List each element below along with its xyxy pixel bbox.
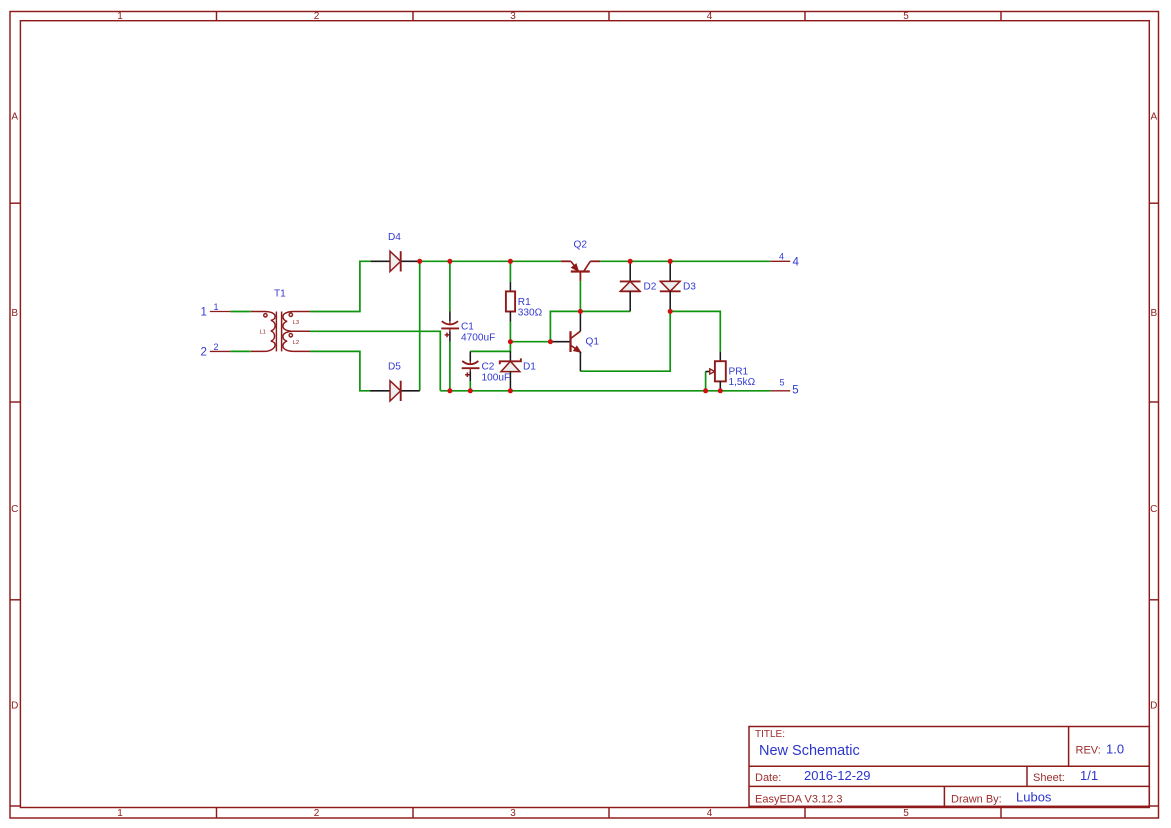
junction C1 top at top rail: [447, 259, 452, 264]
svg-text:C2: C2: [482, 362, 495, 373]
wire node to D1 top and C2 top: [470, 342, 510, 352]
svg-text:5: 5: [780, 378, 785, 388]
svg-text:D3: D3: [683, 282, 696, 293]
junction D1 bottom at bottom rail: [508, 388, 513, 393]
svg-text:B: B: [1150, 308, 1157, 319]
netflag 1 pin: [210, 311, 230, 313]
svg-text:New Schematic: New Schematic: [759, 743, 860, 759]
junction R1 top at top rail: [508, 259, 513, 264]
svg-text:2: 2: [214, 342, 219, 352]
svg-text:5: 5: [903, 808, 909, 819]
svg-text:TITLE:: TITLE:: [755, 729, 785, 740]
svg-text:L1: L1: [260, 329, 266, 335]
svg-text:D1: D1: [523, 362, 536, 373]
transformer T1: [251, 312, 310, 352]
junction D3 bottom node: [668, 309, 673, 314]
wire T1 L2 bottom to D5 anode: [310, 351, 370, 390]
wire R1 top branch: [509, 261, 511, 282]
svg-text:1: 1: [117, 808, 123, 819]
svg-text:REV:: REV:: [1076, 745, 1101, 757]
svg-text:D4: D4: [388, 232, 401, 243]
wire C1 top branch: [449, 261, 451, 311]
svg-text:PR1: PR1: [729, 367, 749, 378]
title block: [749, 727, 1149, 807]
svg-text:5: 5: [792, 385, 798, 397]
diode D4: [371, 251, 420, 271]
wire T1 pin2: [230, 350, 251, 352]
svg-text:3: 3: [510, 808, 516, 819]
svg-text:D: D: [11, 701, 18, 712]
wire top rail left (D4 to Q2 emitter): [420, 260, 561, 262]
wire C2 bottom branch: [469, 381, 471, 391]
svg-text:4: 4: [793, 257, 800, 269]
junction D4-D5 cathodes at top rail: [417, 259, 422, 264]
junction Q2 base / Q1 collector: [578, 309, 583, 314]
svg-text:C1: C1: [461, 322, 474, 333]
svg-text:L3: L3: [293, 320, 299, 326]
transistor Q1: [550, 311, 580, 371]
netflag 4 pin: [770, 260, 790, 262]
svg-text:R1: R1: [518, 297, 531, 308]
svg-text:D: D: [1150, 701, 1157, 712]
wire R1 bottom to base node: [509, 322, 511, 342]
zener diode D3: [660, 261, 681, 311]
svg-text:D5: D5: [388, 362, 401, 373]
wire center tap to bottom rail: [310, 331, 440, 391]
svg-text:Date:: Date:: [755, 772, 781, 784]
transistor Q2: [561, 261, 600, 281]
svg-text:2: 2: [314, 808, 320, 819]
svg-text:2016-12-29: 2016-12-29: [804, 768, 871, 783]
svg-text:4: 4: [707, 808, 713, 819]
svg-text:330Ω: 330Ω: [518, 308, 543, 319]
wire base node to Q1 base junction: [510, 341, 550, 343]
svg-text:1.0: 1.0: [1106, 742, 1124, 757]
wire Q1 base junction up to mid rail: [550, 311, 630, 341]
svg-text:2: 2: [314, 11, 320, 22]
svg-text:1: 1: [201, 307, 207, 319]
capacitor C1: [441, 312, 459, 342]
svg-text:B: B: [11, 308, 18, 319]
svg-text:2: 2: [201, 347, 207, 359]
capacitor C2: [462, 351, 480, 381]
wire D4 cathode down to D5 cathode: [419, 261, 421, 391]
wire bottom rail: [440, 390, 770, 392]
svg-text:C: C: [11, 504, 18, 515]
svg-text:4700uF: 4700uF: [461, 333, 495, 344]
zener diode D1: [500, 351, 521, 390]
junction C1 bottom at bottom rail: [447, 388, 452, 393]
junction D3 top at top rail: [668, 259, 673, 264]
svg-text:4: 4: [779, 252, 784, 262]
zener diode D2: [620, 261, 641, 311]
svg-text:Lubos: Lubos: [1016, 790, 1052, 805]
svg-text:D2: D2: [644, 282, 657, 293]
junction C2 bottom at bottom rail: [468, 388, 473, 393]
netflag 2 pin: [210, 350, 230, 352]
potentiometer PR1: [706, 352, 726, 391]
wire mid rail D3 to PR1 top: [670, 311, 720, 351]
svg-text:A: A: [1150, 112, 1157, 123]
svg-text:C: C: [1150, 504, 1157, 515]
svg-text:1: 1: [214, 302, 219, 312]
netflag 5 pin: [771, 390, 791, 392]
svg-text:3: 3: [510, 11, 516, 22]
svg-text:5: 5: [903, 11, 909, 22]
junction D2 top at top rail: [628, 259, 633, 264]
svg-text:100uF: 100uF: [482, 373, 511, 384]
svg-text:A: A: [11, 112, 18, 123]
wire top rail right (Q2 collector to netflag 4): [600, 260, 770, 262]
svg-text:Sheet:: Sheet:: [1033, 772, 1065, 784]
svg-text:EasyEDA V3.12.3: EasyEDA V3.12.3: [755, 794, 842, 806]
junction PR1 wiper at bottom rail: [703, 388, 708, 393]
wire T1 pin1: [230, 311, 251, 313]
svg-text:4: 4: [707, 11, 713, 22]
svg-text:1: 1: [117, 11, 123, 22]
svg-text:Q1: Q1: [586, 337, 600, 348]
wire T1 L3 top to D4 anode: [310, 261, 371, 311]
svg-text:1/1: 1/1: [1080, 768, 1098, 783]
svg-text:1,5kΩ: 1,5kΩ: [729, 377, 756, 388]
junction R1 bottom / D1 top: [508, 339, 513, 344]
wire D3 node down to Q1 emitter: [580, 311, 670, 371]
svg-text:T1: T1: [274, 289, 286, 300]
junction Q1 base: [548, 339, 553, 344]
svg-text:L2: L2: [293, 340, 299, 346]
svg-text:Drawn By:: Drawn By:: [951, 794, 1002, 806]
svg-text:Q2: Q2: [574, 240, 588, 251]
wire Q2 base down to mid rail: [579, 281, 581, 312]
wire C1 bottom branch: [449, 342, 451, 391]
diode D5: [370, 381, 420, 401]
resistor R1: [506, 282, 515, 322]
wire PR1 wiper down to bottom rail: [705, 372, 707, 391]
junction PR1 bottom at bottom rail: [718, 388, 723, 393]
